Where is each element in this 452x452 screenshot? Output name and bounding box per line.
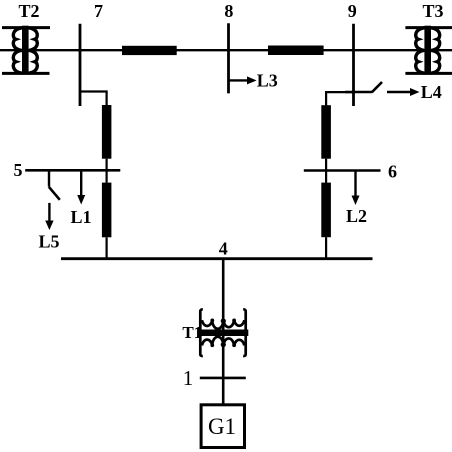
svg-text:7: 7 xyxy=(94,1,103,21)
wire main top line buses 7-8-9 xyxy=(0,49,452,51)
load L2 arrow xyxy=(352,171,360,206)
svg-text:L1: L1 xyxy=(70,207,91,227)
reactor left upper xyxy=(102,105,112,159)
svg-text:T2: T2 xyxy=(18,1,39,21)
svg-text:G1: G1 xyxy=(208,414,236,439)
generator G1 box xyxy=(201,405,244,448)
svg-text:4: 4 xyxy=(219,239,228,259)
transformer T3 xyxy=(405,26,452,75)
wire left feeder bottom xyxy=(105,237,107,259)
svg-text:L5: L5 xyxy=(38,232,59,252)
bus 6 xyxy=(304,169,381,172)
bus 4 xyxy=(61,257,373,260)
svg-text:L3: L3 xyxy=(257,71,278,91)
transformer T2 xyxy=(2,26,50,75)
bus 9 xyxy=(352,24,355,106)
wire right feeder bottom xyxy=(325,237,327,259)
svg-text:9: 9 xyxy=(348,1,357,21)
svg-text:T1: T1 xyxy=(182,323,202,342)
wire connector bus9 to right feeder xyxy=(326,92,353,105)
svg-text:8: 8 xyxy=(224,1,233,21)
reactor left lower xyxy=(102,183,112,238)
wire right feeder middle xyxy=(325,159,327,183)
svg-text:1: 1 xyxy=(183,366,194,390)
reactor right upper xyxy=(321,105,331,159)
svg-text:6: 6 xyxy=(388,162,397,182)
svg-text:L2: L2 xyxy=(346,206,367,226)
switch and load L4 xyxy=(345,82,420,96)
svg-text:5: 5 xyxy=(14,160,23,180)
transformer T1 xyxy=(198,310,248,356)
wire connector bus7 to left feeder xyxy=(80,92,107,106)
line reactor 8-9 xyxy=(268,46,324,56)
bus 7 xyxy=(79,24,82,106)
svg-text:T3: T3 xyxy=(422,1,443,21)
svg-text:L4: L4 xyxy=(421,82,442,102)
load L1 arrow xyxy=(77,170,85,204)
wire generator riser xyxy=(222,259,225,404)
bus 1 xyxy=(200,377,246,380)
bus 5 xyxy=(25,169,120,172)
switch and load L5 xyxy=(45,170,60,230)
wire left feeder middle xyxy=(105,159,107,183)
line reactor 7-8 xyxy=(122,46,177,55)
load L3 arrow xyxy=(229,76,257,84)
bus 8 xyxy=(227,23,230,93)
reactor right lower xyxy=(321,183,331,238)
